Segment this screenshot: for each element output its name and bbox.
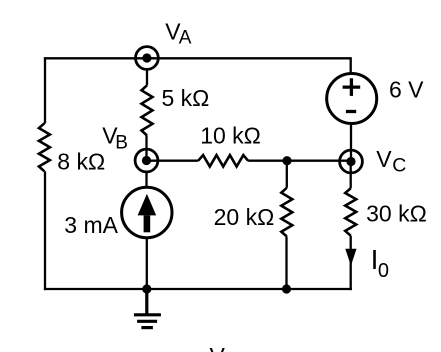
svg-text:6 V: 6 V bbox=[389, 77, 424, 103]
svg-text:8 kΩ: 8 kΩ bbox=[57, 148, 105, 174]
wire VB node to 3mA source bbox=[145, 172, 147, 187]
junction dot bottom center bbox=[142, 284, 151, 293]
resistor R5 20k zigzag bbox=[281, 188, 292, 237]
voltage source V1 6V circle bbox=[327, 74, 377, 124]
minus sign bbox=[346, 110, 356, 113]
wire left rail lower bbox=[44, 171, 46, 290]
resistor R3 30k zigzag bbox=[345, 188, 356, 235]
current source I1 3mA circle bbox=[122, 187, 172, 237]
svg-text:3 mA: 3 mA bbox=[64, 212, 118, 238]
wire 20k resistor to bottom rail bbox=[285, 237, 287, 290]
svg-text:30 kΩ: 30 kΩ bbox=[366, 201, 427, 227]
wire 10k to VC node bbox=[248, 160, 351, 162]
node VC dot bbox=[346, 157, 355, 166]
svg-text:A: A bbox=[179, 28, 192, 49]
node VA circle bbox=[136, 47, 159, 70]
wire 5k resistor to VB node bbox=[145, 136, 147, 161]
svg-text:C: C bbox=[392, 155, 406, 177]
svg-text:B: B bbox=[115, 132, 128, 153]
junction dot bottom middle bbox=[282, 284, 291, 293]
resistor R4 8k zigzag bbox=[39, 123, 50, 171]
current source arrow up bbox=[138, 194, 157, 216]
svg-text:10 kΩ: 10 kΩ bbox=[200, 123, 261, 149]
wire VB to middle junction bbox=[147, 160, 199, 162]
junction dot middle bbox=[282, 156, 291, 165]
wire VA node to 5k resistor bbox=[146, 69, 148, 85]
wire 3mA source to bottom rail bbox=[146, 238, 148, 289]
node VA dot bbox=[142, 53, 151, 62]
wire left rail upper bbox=[44, 57, 46, 123]
svg-text:V: V bbox=[376, 146, 392, 172]
svg-text:V: V bbox=[210, 343, 226, 352]
plus sign bbox=[343, 78, 361, 96]
wire junction to 20k resistor bbox=[286, 161, 288, 188]
svg-text:20 kΩ: 20 kΩ bbox=[214, 204, 275, 230]
wire right branch top bbox=[350, 57, 352, 73]
ground bbox=[134, 289, 161, 328]
wire 30k resistor to bottom right corner bbox=[350, 236, 352, 290]
arrow I0 on wire bbox=[345, 249, 356, 266]
wire bottom rail bbox=[44, 288, 352, 290]
wire 6V source to node VC bbox=[350, 124, 352, 162]
svg-text:0: 0 bbox=[378, 260, 389, 282]
wire top rail bbox=[44, 57, 351, 59]
node VB dot bbox=[142, 156, 151, 165]
wire node VC to 30k resistor bbox=[350, 162, 352, 189]
node VC circle bbox=[340, 150, 363, 173]
resistor R1 5k zigzag bbox=[142, 85, 153, 135]
svg-text:5 kΩ: 5 kΩ bbox=[162, 85, 210, 111]
resistor R2 10k zigzag bbox=[198, 155, 248, 166]
node VB circle bbox=[135, 149, 158, 172]
